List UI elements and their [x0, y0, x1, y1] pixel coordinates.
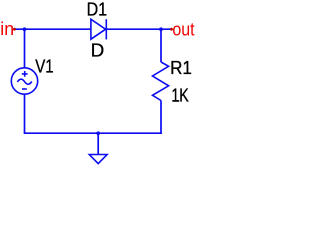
svg-text:V1: V1 [35, 55, 54, 76]
V1 minus sign [22, 88, 27, 90]
svg-text:out: out [172, 19, 195, 40]
diode D1 cathode bar [105, 19, 107, 39]
svg-text:D1: D1 [87, 0, 108, 19]
node A junction dot (in net) [23, 27, 27, 31]
port dot: in [13, 28, 16, 31]
diode D1 triangle (anode) [91, 19, 106, 39]
wire: bottom rail [24, 132, 162, 134]
V1 plus sign [22, 71, 28, 77]
ground stub wire [97, 133, 99, 154]
svg-text:1K: 1K [171, 85, 189, 106]
wire: top left from in port to diode anode [15, 28, 92, 30]
serif of 1 in 1K [173, 100, 179, 102]
wire: right vertical from out node to R1 top [160, 28, 162, 62]
wire: right vertical from R1 bottom to bottom rail [160, 101, 162, 135]
svg-text:in: in [0, 18, 14, 39]
voltage source V1 circle [11, 68, 37, 94]
node out junction dot [159, 27, 163, 31]
V1 sine wave [17, 79, 31, 84]
serif of 1 in V1 [47, 71, 53, 73]
wire: left vertical from node A down to V1 top [24, 28, 26, 68]
port dot: out [170, 28, 173, 31]
svg-text:D: D [91, 40, 105, 61]
wire: top right from diode cathode to out port [106, 28, 171, 30]
ground symbol triangle [89, 155, 107, 164]
resistor R1 zigzag [153, 62, 169, 101]
serif of 1 in D1 [100, 14, 106, 16]
wire: left vertical from V1 bottom to bottom rail [24, 94, 26, 133]
svg-text:R1: R1 [170, 57, 192, 78]
ground junction dot [96, 131, 100, 135]
serif of 1 in R1 [185, 72, 191, 74]
